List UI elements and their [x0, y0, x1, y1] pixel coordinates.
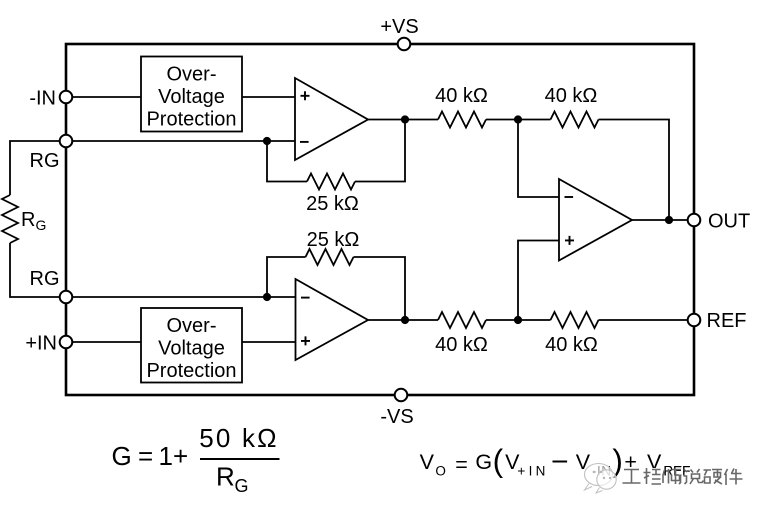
svg-text:40 kΩ: 40 kΩ [545, 85, 598, 107]
wire A2 feedback loop [267, 257, 306, 297]
wire A1 feedback loop [267, 141, 307, 182]
svg-text:+VS: +VS [380, 16, 418, 38]
terminal +VS [398, 38, 411, 51]
op-amp A1 plus input sign [301, 91, 310, 100]
svg-text:=: = [138, 441, 153, 471]
output formula VO = G(V+IN - V-IN) + VREF [420, 443, 691, 479]
resistor RG external [2, 195, 18, 243]
svg-text:25 kΩ: 25 kΩ [307, 229, 360, 251]
watermark logo eyes [593, 471, 611, 479]
svg-text:50 kΩ: 50 kΩ [199, 423, 279, 453]
svg-text:OUT: OUT [708, 211, 750, 233]
wire top node to A3 - input [518, 120, 559, 198]
op-amp A1 [295, 78, 368, 160]
wire RG top to A1 - input [66, 140, 295, 142]
resistor 25k A2 feedback [306, 249, 354, 265]
over-voltage protection text 2 [146, 315, 236, 382]
svg-text:(: ( [493, 443, 504, 479]
svg-text:REF: REF [707, 310, 747, 332]
wire A1 output [368, 119, 438, 121]
svg-text:40 kΩ: 40 kΩ [545, 334, 598, 356]
wire OVP1 to A1 + input [242, 96, 295, 98]
wire OVP2 to A2 + input [242, 341, 296, 343]
svg-text:40 kΩ: 40 kΩ [435, 85, 488, 107]
svg-text:G: G [112, 441, 132, 471]
op-amp A1 minus input sign [300, 141, 309, 143]
wire 25k to A2 output node [354, 257, 406, 320]
over-voltage protection box 1 [141, 57, 242, 132]
wire -IN to OVP1 [66, 96, 141, 98]
resistor 25k A1 feedback [307, 174, 355, 190]
svg-text:Over-: Over- [167, 64, 217, 86]
wire between top 40k resistors [486, 119, 551, 121]
resistor 40k top-right [551, 112, 599, 128]
svg-text:1+: 1+ [159, 441, 189, 471]
terminal -IN [60, 91, 73, 104]
junction A1 minus node [263, 137, 271, 145]
junction OUT node [665, 216, 673, 224]
junction A2 minus node [263, 293, 271, 301]
svg-text:Voltage: Voltage [158, 338, 225, 360]
terminal -VS [395, 389, 408, 402]
terminal OUT [688, 214, 701, 227]
op-amp A2 [296, 279, 369, 360]
svg-text:+IN: +IN [517, 464, 548, 479]
resistor 40k top-left [438, 112, 486, 128]
terminal REF [688, 314, 701, 327]
wire RG bottom to A2 - input [66, 296, 296, 298]
svg-text:RG: RG [30, 150, 60, 172]
terminal +IN [60, 336, 73, 349]
svg-text:-VS: -VS [380, 406, 413, 428]
watermark logo bubbles [585, 464, 617, 494]
svg-text:40 kΩ: 40 kΩ [435, 334, 488, 356]
gain formula G = 1 + 50k/RG [112, 423, 280, 496]
wire A2 output [368, 319, 438, 321]
op-amp A2 plus input sign [301, 336, 310, 345]
wire A3 output to OUT [632, 219, 694, 221]
wire bottom node to A3 + input [518, 241, 559, 321]
svg-text:R: R [216, 462, 235, 492]
wire bottom 40k to REF [599, 319, 695, 321]
op-amp A2 minus input sign [301, 297, 310, 299]
svg-text:+IN: +IN [25, 333, 57, 355]
over-voltage protection text 1 [146, 64, 236, 131]
wire between bottom 40k resistors [486, 319, 551, 321]
svg-text:25 kΩ: 25 kΩ [306, 193, 359, 215]
op-amp A3 [559, 179, 632, 261]
svg-text:RG: RG [30, 268, 60, 290]
junction A2 output node [401, 316, 409, 324]
over-voltage protection box 2 [141, 308, 242, 383]
op-amp A3 minus input sign [565, 196, 574, 198]
wire 25k to A1 output node [355, 120, 405, 182]
junction top mid node [514, 115, 522, 123]
op-amp A3 plus input sign [565, 236, 574, 245]
svg-text:Over-: Over- [167, 315, 217, 337]
svg-text:V: V [420, 450, 435, 474]
svg-text:O: O [435, 464, 446, 479]
resistor 40k bottom-right [551, 312, 599, 328]
junction A1 output node [401, 115, 409, 123]
junction bottom mid node [514, 316, 522, 324]
resistor 40k bottom-left [438, 312, 486, 328]
wire external RG to RG bottom [10, 243, 66, 297]
svg-text:Protection: Protection [146, 109, 236, 131]
svg-text:Voltage: Voltage [158, 86, 225, 108]
wire top 40k to OUT node [599, 120, 670, 221]
terminal RG top [60, 135, 73, 148]
IC boundary box [66, 44, 694, 395]
svg-text:-IN: -IN [29, 88, 56, 110]
terminal RG bottom [60, 291, 73, 304]
watermark text 工程师说硬件 [623, 468, 743, 485]
watermark text casing [623, 468, 743, 485]
wire +IN to OVP2 [66, 341, 141, 343]
svg-text:G: G [235, 476, 249, 496]
svg-text:G: G [475, 450, 492, 474]
wire RG top to external RG [10, 141, 66, 195]
svg-text:Protection: Protection [146, 360, 236, 382]
svg-text:=: = [455, 453, 468, 477]
